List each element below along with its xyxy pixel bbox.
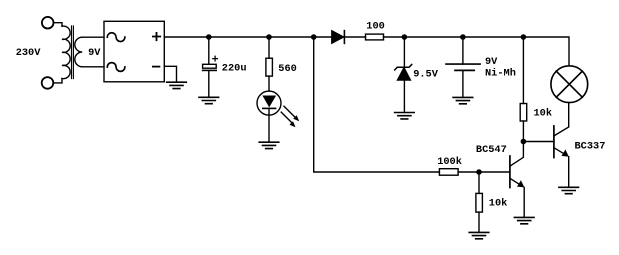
LED light arrow 2 xyxy=(281,112,295,127)
wire rail after resistor 100 xyxy=(384,37,570,66)
junction dot battery xyxy=(460,34,466,40)
svg-text:100k: 100k xyxy=(437,156,462,168)
svg-text:BC547: BC547 xyxy=(476,144,507,156)
wire 10k lower top xyxy=(478,172,480,193)
wire Q2 emitter to ground xyxy=(568,157,570,188)
LED anode triangle xyxy=(262,96,276,108)
capacitor 220u xyxy=(203,64,217,70)
transistor Q1 BC547 base bar xyxy=(509,156,511,188)
svg-text:9V: 9V xyxy=(485,56,498,68)
junction dot collector-base xyxy=(521,139,527,145)
wire junction to BC337 base xyxy=(523,141,554,143)
wire LED to ground xyxy=(268,108,270,142)
ground BC547 xyxy=(514,217,534,223)
wire zener top xyxy=(403,37,405,67)
svg-text:560: 560 xyxy=(278,63,297,75)
wire bottom terminal to primary xyxy=(53,79,62,83)
terminal bottom-left xyxy=(42,77,54,89)
wire 10k upper xyxy=(522,37,524,104)
resistor 10k upper xyxy=(520,104,527,122)
svg-text:BC337: BC337 xyxy=(575,141,606,153)
junction dot base divider xyxy=(476,169,482,175)
wire Q1 emitter to ground xyxy=(523,187,525,217)
wire positive rail xyxy=(164,36,331,38)
terminal top-left xyxy=(42,17,54,29)
svg-text:100: 100 xyxy=(366,21,385,33)
ground LED xyxy=(259,142,279,148)
wire secondary top to bridge xyxy=(82,36,104,38)
junction dot 10k upper xyxy=(521,34,527,40)
transistor Q1 emitter xyxy=(510,178,525,187)
wire bridge minus to ground xyxy=(164,66,176,82)
bridge AC symbol bottom xyxy=(107,63,125,72)
battery 9V plate long xyxy=(446,63,480,65)
wire secondary bottom to bridge xyxy=(82,66,104,68)
transistor Q1 collector xyxy=(510,142,524,167)
lamp xyxy=(551,66,588,103)
wire 560 to LED xyxy=(268,76,270,91)
ground bridge xyxy=(167,82,187,88)
wire rail after diode xyxy=(344,36,365,38)
LED cathode bar xyxy=(263,107,276,109)
bridge AC symbol top xyxy=(107,33,125,42)
capacitor 220u plus sign xyxy=(213,56,218,61)
wire 10k upper to junction xyxy=(522,121,524,142)
svg-text:9.5V: 9.5V xyxy=(413,68,439,80)
ground cap xyxy=(199,97,219,103)
zener diode triangle xyxy=(398,68,411,80)
wire cap top xyxy=(208,37,210,64)
wire zener bottom xyxy=(403,80,405,112)
resistor 100k xyxy=(439,169,458,176)
wire battery top xyxy=(462,37,464,64)
resistor 100 xyxy=(366,34,384,40)
LED circle xyxy=(257,91,281,115)
ground zener xyxy=(395,113,415,119)
transistor Q2 BC337 base bar xyxy=(553,126,555,158)
wire battery bottom xyxy=(462,70,464,97)
ground battery xyxy=(453,97,473,103)
ground BC337 xyxy=(559,187,579,193)
transformer T1 core xyxy=(72,26,74,79)
svg-text:9V: 9V xyxy=(88,47,101,59)
junction dot zener xyxy=(402,34,408,40)
bridge rectifier xyxy=(104,21,164,82)
diode D1 triangle xyxy=(332,31,344,43)
wire 560 top xyxy=(268,37,270,58)
LED light arrow 1 xyxy=(284,106,299,121)
svg-text:Ni-Mh: Ni-Mh xyxy=(485,68,516,80)
transistor Q2 collector xyxy=(554,103,569,136)
ground 10k lower xyxy=(469,232,489,238)
transformer T1 primary winding xyxy=(62,26,70,79)
bridge plus sign xyxy=(153,33,160,40)
svg-text:10k: 10k xyxy=(489,198,508,210)
wire 10k lower bottom xyxy=(478,212,480,232)
battery 9V plate short xyxy=(455,69,474,71)
wire 100k to BC547 base xyxy=(458,171,510,173)
transformer T1 secondary winding xyxy=(75,37,82,67)
wire top terminal to primary xyxy=(54,23,63,27)
transistor Q2 emitter xyxy=(554,148,569,157)
svg-text:230V: 230V xyxy=(16,47,42,59)
svg-text:220u: 220u xyxy=(222,62,247,74)
wire cap bottom xyxy=(208,71,210,98)
bridge minus sign xyxy=(153,66,160,68)
diode D1 cathode bar xyxy=(343,31,345,44)
junction dot cap xyxy=(206,34,212,40)
resistor 560 xyxy=(266,58,273,76)
junction dot 560 xyxy=(266,34,272,40)
zener diode bar xyxy=(395,64,412,70)
resistor 10k lower xyxy=(476,193,483,212)
wire feedback branch xyxy=(314,37,440,172)
svg-text:10k: 10k xyxy=(534,107,553,119)
junction dot feedback xyxy=(311,34,317,40)
